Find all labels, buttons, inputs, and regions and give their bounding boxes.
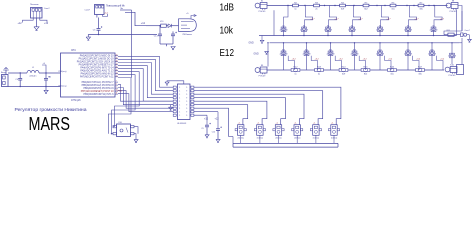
svg-text:9: 9 — [186, 87, 187, 89]
svg-text:PA6(ADC5/PCINT6) AIN0 IN 12: PA6(ADC5/PCINT6) AIN0 IN 12 — [81, 73, 115, 76]
svg-text:PB5(ADC8/XTAL2) PCINT13 8: PB5(ADC8/XTAL2) PCINT13 8 — [82, 84, 115, 87]
svg-text:К5: К5 — [351, 25, 353, 27]
svg-text:К8: К8 — [432, 25, 434, 27]
svg-text:8: 8 — [309, 53, 310, 55]
svg-text:8: 8 — [383, 53, 384, 55]
svg-text:9: 9 — [186, 112, 187, 114]
svg-text:GND: GND — [254, 54, 259, 56]
svg-text:2: 2 — [448, 56, 449, 58]
svg-text:К12: К12 — [329, 49, 332, 51]
svg-text:CPU: CPU — [71, 50, 76, 52]
svg-text:К6: К6 — [379, 25, 381, 27]
svg-text:8: 8 — [307, 29, 308, 31]
svg-text:15: 15 — [116, 69, 118, 71]
svg-text:9: 9 — [186, 105, 187, 107]
svg-text:К3: К3 — [303, 25, 305, 27]
svg-text:Регулятор громкости Никитина: Регулятор громкости Никитина — [15, 107, 88, 112]
svg-text:10k: 10k — [220, 26, 234, 37]
svg-text:R11: R11 — [447, 30, 450, 32]
svg-text:+12: +12 — [18, 22, 23, 25]
svg-text:8: 8 — [436, 29, 437, 31]
svg-text:1: 1 — [179, 94, 180, 96]
svg-text:2: 2 — [376, 29, 377, 31]
svg-text:+1.: +1. — [238, 123, 241, 125]
svg-text:2: 2 — [324, 29, 325, 31]
svg-text:РЭС49: РЭС49 — [450, 11, 458, 13]
svg-text:14: 14 — [116, 72, 118, 74]
svg-text:2: 2 — [428, 53, 429, 55]
svg-text:GND: GND — [249, 43, 254, 45]
svg-text:8: 8 — [411, 53, 412, 55]
svg-text:С2,3: С2,3 — [154, 35, 158, 37]
svg-text:VD1: VD1 — [160, 21, 164, 23]
svg-text:PA1(ADC1/PCINT1) MOSI DO 19: PA1(ADC1/PCINT1) MOSI DO 19 — [79, 58, 115, 61]
svg-text:К10: К10 — [282, 49, 285, 51]
svg-text:2: 2 — [303, 53, 304, 55]
svg-text:1: 1 — [179, 105, 180, 107]
svg-text:PA7(ADC6/PCINT7) PCINT A 11: PA7(ADC6/PCINT7) PCINT A 11 — [80, 76, 114, 79]
svg-text:к512ом: к512ом — [294, 138, 301, 140]
svg-text:11: 11 — [116, 93, 118, 95]
svg-text:РЭС49: РЭС49 — [259, 76, 267, 78]
svg-text:16к: 16к — [391, 8, 394, 10]
svg-text:PA2(ADC2/PCINT2) SCK USCK 18: PA2(ADC2/PCINT2) SCK USCK 18 — [77, 61, 114, 64]
svg-text:1: 1 — [179, 87, 180, 89]
svg-text:7: 7 — [116, 81, 117, 83]
svg-text:8: 8 — [435, 53, 436, 55]
svg-text:Conn?: Conn? — [85, 10, 91, 12]
svg-text:ATTiny26: ATTiny26 — [71, 99, 81, 102]
svg-text:2: 2 — [430, 29, 431, 31]
svg-text:2: 2 — [348, 29, 349, 31]
svg-text:2к: 2к — [315, 8, 317, 10]
svg-text:С5: С5 — [49, 76, 51, 78]
svg-text:8: 8 — [286, 53, 287, 55]
svg-text:Питание: Питание — [30, 4, 39, 6]
svg-text:9: 9 — [186, 94, 187, 96]
svg-text:33к: 33к — [419, 8, 422, 10]
svg-text:PB4(ADC7/XTAL1) PCINT12 7: PB4(ADC7/XTAL1) PCINT12 7 — [82, 81, 115, 84]
svg-text:2: 2 — [300, 29, 301, 31]
svg-text:к512ом: к512ом — [313, 138, 320, 140]
svg-text:20: 20 — [116, 54, 118, 56]
svg-text:+1.: +1. — [257, 123, 260, 125]
svg-text:К4: К4 — [327, 25, 329, 27]
svg-text:8: 8 — [116, 84, 117, 86]
svg-text:1: 1 — [179, 98, 180, 100]
svg-text:К13: К13 — [353, 49, 356, 51]
svg-text:PCB: PCB — [118, 90, 123, 92]
svg-text:PB3(OC1B/PCINT11) INT1 6: PB3(OC1B/PCINT11) INT1 6 — [84, 94, 115, 96]
svg-text:MARS: MARS — [29, 114, 71, 134]
svg-text:9: 9 — [186, 101, 187, 103]
svg-text:8: 8 — [355, 29, 356, 31]
svg-text:к512ом: к512ом — [257, 138, 264, 140]
svg-text:РЭС49: РЭС49 — [449, 75, 457, 77]
svg-text:2: 2 — [280, 53, 281, 55]
svg-text:РЭС49: РЭС49 — [259, 11, 267, 13]
svg-text:17: 17 — [116, 63, 118, 65]
svg-text:К15: К15 — [406, 49, 409, 51]
svg-text:2к: 2к — [318, 74, 320, 76]
svg-text:8: 8 — [331, 29, 332, 31]
svg-text:1к: 1к — [294, 74, 296, 76]
svg-text:1: 1 — [179, 112, 180, 114]
svg-text:8: 8 — [411, 29, 412, 31]
svg-text:2: 2 — [351, 53, 352, 55]
svg-text:К2: К2 — [282, 25, 284, 27]
svg-text:+12: +12 — [141, 22, 146, 25]
svg-text:8: 8 — [286, 29, 287, 31]
svg-text:1: 1 — [179, 108, 180, 110]
svg-text:к512ом: к512ом — [331, 138, 338, 140]
svg-text:18: 18 — [116, 60, 118, 62]
svg-text:С10: С10 — [212, 131, 215, 133]
svg-text:+12: +12 — [44, 22, 49, 25]
svg-text:E12: E12 — [220, 48, 235, 59]
svg-text:2: 2 — [280, 29, 281, 31]
svg-text:С9: С9 — [201, 128, 203, 130]
svg-text:Повышающий Мк: Повышающий Мк — [106, 4, 126, 7]
svg-text:1: 1 — [179, 91, 180, 93]
svg-text:9: 9 — [186, 98, 187, 100]
svg-text:8: 8 — [357, 53, 358, 55]
svg-text:К11: К11 — [305, 49, 308, 51]
svg-text:33к: 33к — [418, 74, 421, 76]
svg-text:16к: 16к — [390, 74, 393, 76]
svg-text:2: 2 — [327, 53, 328, 55]
svg-text:7805мини: 7805мини — [182, 34, 192, 36]
svg-text:Conn?: Conn? — [44, 8, 50, 10]
svg-text:к512ом: к512ом — [238, 138, 245, 140]
svg-text:+1.: +1. — [331, 123, 334, 125]
svg-text:PB7(ADC10/RESET) PCINT 10: PB7(ADC10/RESET) PCINT 10 — [81, 90, 114, 93]
svg-text:+1.: +1. — [294, 123, 297, 125]
svg-text:PA3(AREF/PCINT3) RESET N 17: PA3(AREF/PCINT3) RESET N 17 — [79, 64, 115, 67]
svg-text:PA5(ADC4/PCINT5) AIN1 T1 13: PA5(ADC4/PCINT5) AIN1 T1 13 — [80, 70, 114, 73]
svg-text:9: 9 — [186, 91, 187, 93]
svg-text:13: 13 — [116, 75, 118, 77]
svg-text:К7: К7 — [407, 25, 409, 27]
svg-text:+12: +12 — [215, 117, 220, 120]
svg-text:9: 9 — [186, 115, 187, 117]
svg-text:9: 9 — [186, 108, 187, 110]
svg-text:1dB: 1dB — [220, 2, 235, 13]
svg-text:8: 8 — [383, 29, 384, 31]
svg-text:ULN2003: ULN2003 — [177, 123, 187, 125]
svg-text:К16: К16 — [430, 49, 433, 51]
svg-text:9: 9 — [116, 87, 117, 89]
svg-text:8: 8 — [333, 53, 334, 55]
svg-text:8: 8 — [455, 56, 456, 58]
svg-text:PA0(ADC0/PCINT0) MISO DI 20: PA0(ADC0/PCINT0) MISO DI 20 — [80, 55, 114, 58]
svg-text:2: 2 — [404, 29, 405, 31]
svg-text:220мкГн: 220мкГн — [29, 76, 36, 78]
svg-text:К14: К14 — [378, 49, 381, 51]
svg-text:Мк: Мк — [121, 8, 124, 10]
svg-text:2: 2 — [376, 53, 377, 55]
svg-text:+1.: +1. — [276, 123, 279, 125]
svg-text:16: 16 — [116, 66, 118, 68]
svg-text:1к: 1к — [294, 8, 296, 10]
svg-text:Conn?: Conn? — [465, 30, 470, 32]
svg-text:19: 19 — [116, 57, 118, 59]
svg-text:2: 2 — [404, 53, 405, 55]
svg-text:+12: +12 — [204, 117, 209, 120]
svg-text:1: 1 — [179, 115, 180, 117]
svg-text:PA4(ADC3/PCINT4) INT0 T0 14: PA4(ADC3/PCINT4) INT0 T0 14 — [80, 67, 114, 70]
svg-text:PB6(ADC9/INT0) PCINT14 9: PB6(ADC9/INT0) PCINT14 9 — [83, 87, 114, 90]
svg-text:1: 1 — [179, 101, 180, 103]
svg-text:+1.: +1. — [313, 123, 316, 125]
svg-text:к512ом: к512ом — [275, 138, 282, 140]
